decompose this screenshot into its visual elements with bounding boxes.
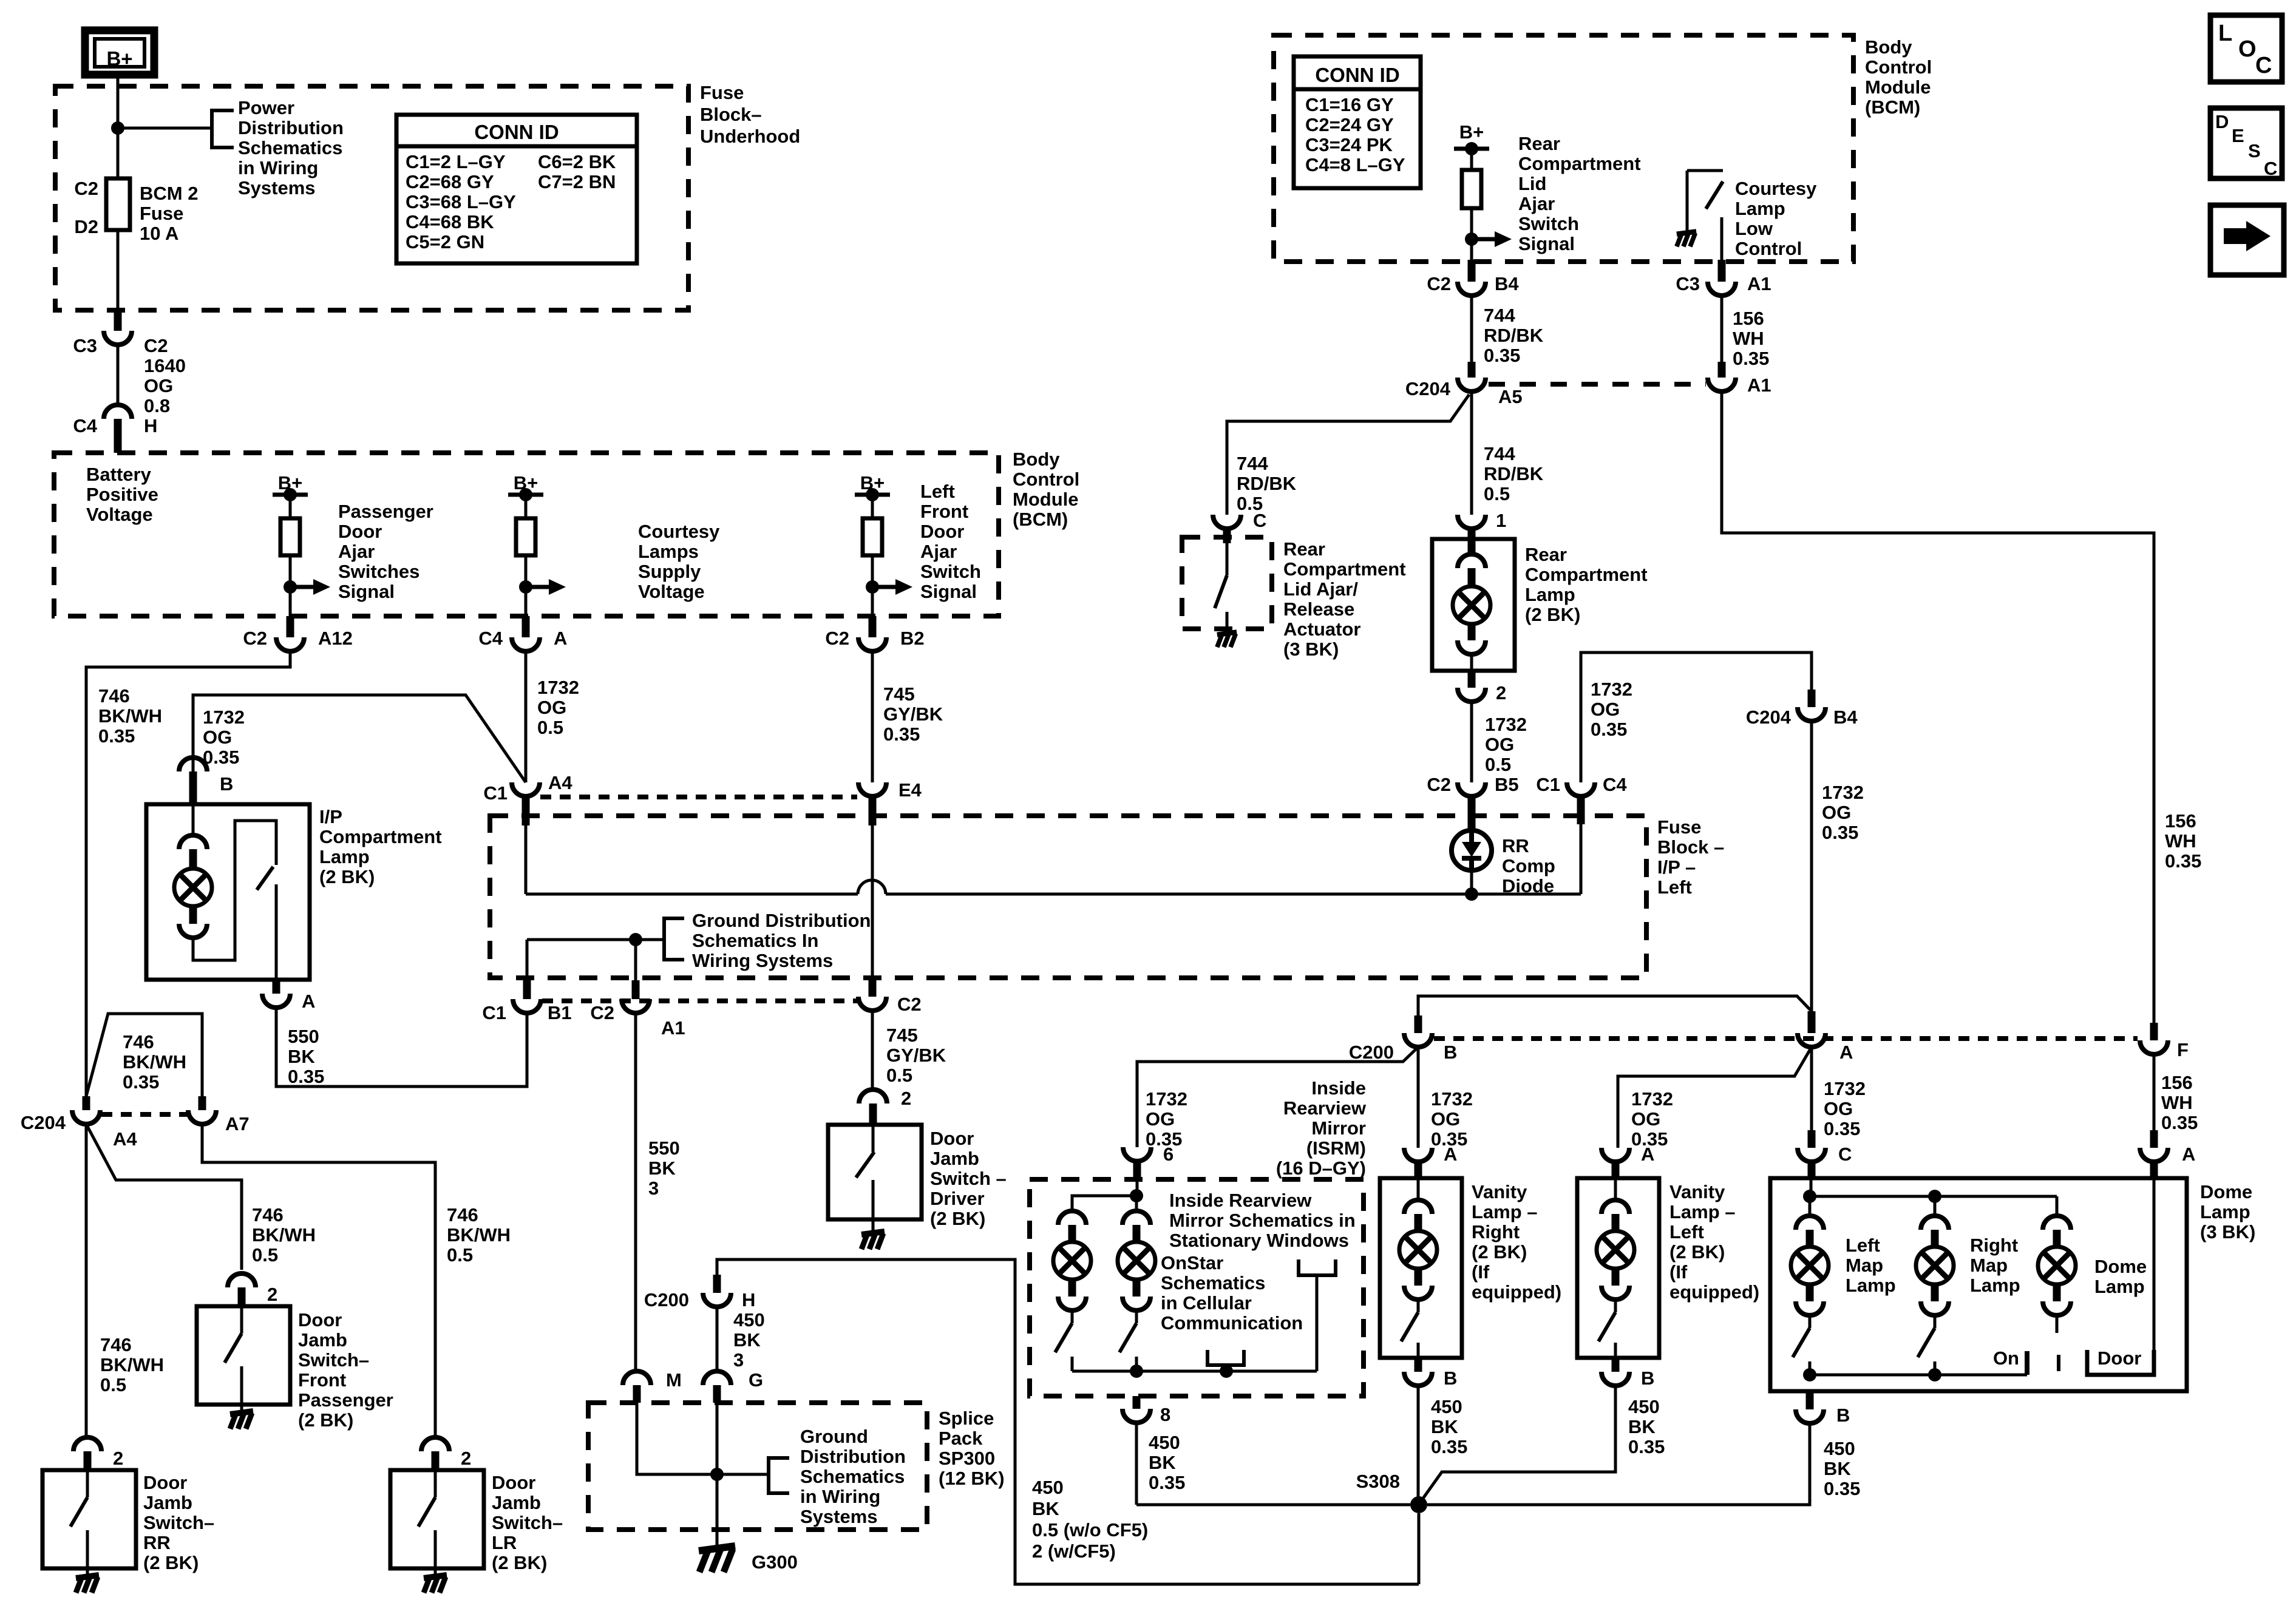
svg-text:1732: 1732: [1822, 782, 1864, 803]
svg-text:RR: RR: [143, 1532, 171, 1553]
svg-text:1732: 1732: [1485, 714, 1527, 735]
svg-text:BK/WH: BK/WH: [447, 1224, 511, 1246]
svg-text:Map: Map: [1846, 1255, 1883, 1276]
svg-text:in Wiring: in Wiring: [238, 157, 318, 178]
svg-text:6: 6: [1163, 1144, 1173, 1165]
svg-text:0.35: 0.35: [1822, 822, 1858, 843]
svg-text:F: F: [2177, 1039, 2189, 1060]
svg-text:0.5: 0.5: [886, 1065, 912, 1086]
svg-text:A12: A12: [318, 628, 353, 649]
svg-text:Control: Control: [1865, 56, 1932, 78]
door jamb switch driver box: [828, 1125, 922, 1219]
stub into C204 B4: [1808, 690, 1816, 707]
stub A into vanity left box: [1612, 1162, 1620, 1178]
wire F to dome A: [2153, 1054, 2156, 1148]
rear compartment lid ajar switch signal label: [1518, 133, 1641, 254]
connector C200/F cup: [2140, 1039, 2189, 1060]
svg-text:B5: B5: [1495, 774, 1519, 795]
svg-text:Body: Body: [1013, 449, 1060, 470]
svg-text:Schematics: Schematics: [238, 137, 342, 158]
wire label 746 BK/WH 0.35: [98, 685, 162, 747]
wire A7 to LR switch: [202, 1124, 435, 1437]
wire dome B to S308: [1427, 1423, 1810, 1505]
svg-text:0.5 (w/o CF5): 0.5 (w/o CF5): [1032, 1519, 1148, 1541]
wire B4 to A5: [1470, 296, 1473, 378]
svg-text:Rear: Rear: [1283, 538, 1325, 560]
svg-text:Systems: Systems: [238, 177, 316, 198]
svg-text:OG: OG: [203, 727, 232, 748]
wire junction to A1: [634, 940, 637, 999]
door jamb switch RR label: [143, 1472, 214, 1573]
fuse block underhood box: [55, 86, 688, 310]
svg-text:(2 BK): (2 BK): [143, 1552, 199, 1573]
stub into C200 F: [2150, 1023, 2158, 1040]
svg-text:Rear: Rear: [1525, 544, 1567, 565]
svg-text:1732: 1732: [1146, 1088, 1187, 1110]
svg-text:C4: C4: [1603, 774, 1627, 795]
stub into C204 A4: [83, 1096, 90, 1110]
stub C4 into BCM: [114, 419, 122, 453]
vanity lamp left box: [1577, 1178, 1659, 1358]
connector C204/A7 cup: [188, 1110, 250, 1134]
wire label 450 BK 0.35 dome: [1824, 1438, 1860, 1499]
svg-text:Schematics: Schematics: [1161, 1272, 1265, 1293]
svg-text:Vanity: Vanity: [1669, 1181, 1725, 1202]
svg-text:Switch: Switch: [1518, 213, 1579, 234]
wire C4 up to B4: [1581, 653, 1812, 782]
svg-text:746: 746: [98, 685, 130, 707]
svg-text:Ajar: Ajar: [920, 541, 957, 562]
svg-text:in Cellular: in Cellular: [1161, 1292, 1252, 1314]
svg-text:Map: Map: [1970, 1255, 2008, 1276]
wire label 744 RD/BK 0.5 left: [1237, 453, 1297, 514]
splice pack label: [939, 1408, 1005, 1489]
fuse block underhood label: [700, 82, 800, 147]
connector C1/B1 cup: [482, 999, 571, 1023]
wire G to G300: [716, 1403, 719, 1547]
svg-text:OG: OG: [1631, 1108, 1660, 1130]
svg-text:744: 744: [1484, 443, 1515, 464]
wire C4 down to rail: [1580, 824, 1583, 894]
wire label 745 GY/BK 0.35: [883, 683, 943, 745]
wire A12 to C204 A4: [86, 651, 290, 1096]
svg-text:Jamb: Jamb: [143, 1492, 192, 1513]
svg-text:Lamp: Lamp: [1735, 198, 1785, 219]
svg-text:3: 3: [733, 1349, 744, 1371]
wire label 1732 OG 0.5: [537, 677, 579, 738]
connector A cup IP lamp: [262, 991, 315, 1012]
svg-text:(16 D–GY): (16 D–GY): [1276, 1158, 1366, 1179]
svg-text:WH: WH: [2165, 830, 2196, 852]
actuator switch: [1215, 543, 1227, 631]
rear compartment lid ajar release actuator label: [1283, 538, 1406, 660]
svg-text:B: B: [1444, 1042, 1457, 1063]
svg-text:C2: C2: [825, 628, 849, 649]
svg-text:0.35: 0.35: [98, 725, 135, 747]
stub M into splice box: [633, 1385, 641, 1403]
svg-text:Lamp: Lamp: [1970, 1275, 2020, 1296]
svg-text:A1: A1: [661, 1017, 685, 1039]
wire B+ to fuse: [117, 75, 120, 178]
svg-text:Lamp: Lamp: [2200, 1201, 2250, 1222]
connector C2/B4 cup: [1427, 273, 1519, 296]
actuator ground: [1217, 632, 1237, 647]
svg-text:B: B: [1444, 1368, 1457, 1389]
svg-text:8: 8: [1160, 1404, 1170, 1425]
svg-text:Door: Door: [143, 1472, 187, 1493]
svg-text:0.35: 0.35: [123, 1071, 159, 1093]
svg-text:Lamp –: Lamp –: [1472, 1201, 1538, 1222]
conn id table bcm: [1294, 56, 1421, 188]
wire label 745 GY/BK 0.5: [886, 1025, 946, 1086]
wire label 744 RD/BK 0.5 right: [1484, 443, 1544, 504]
driver switch ground: [861, 1219, 885, 1249]
svg-text:Ground: Ground: [800, 1426, 868, 1447]
svg-text:450: 450: [1032, 1477, 1064, 1498]
DESC box: [2210, 108, 2282, 179]
svg-text:I/P: I/P: [319, 806, 342, 827]
wire label 450 BK 0.35 vanity right: [1431, 1396, 1467, 1457]
wire label 1640 OG 0.8: [144, 355, 186, 416]
dome left map lamp: [1791, 1196, 1829, 1375]
rear compartment lamp label: [1525, 544, 1648, 625]
fuse BCM 2 10A: [106, 178, 130, 230]
svg-text:Fuse: Fuse: [700, 82, 744, 103]
door contact bracket: [2087, 1347, 2154, 1375]
svg-text:Lamp: Lamp: [2094, 1276, 2145, 1297]
svg-text:B: B: [1836, 1405, 1850, 1426]
svg-text:450: 450: [1149, 1432, 1180, 1453]
svg-text:(12 BK): (12 BK): [939, 1468, 1005, 1489]
wire C3 to C4: [117, 345, 120, 405]
ISRM box: [1030, 1179, 1364, 1396]
svg-text:3: 3: [648, 1178, 659, 1199]
connector line A4-E4: [540, 795, 857, 799]
wire E4 down: [871, 825, 874, 997]
connector M cup: [623, 1369, 682, 1391]
connector C2/B2 cup: [825, 628, 924, 651]
svg-text:Supply: Supply: [638, 561, 701, 582]
connector C2/A1 cup: [590, 999, 685, 1039]
svg-text:Voltage: Voltage: [638, 581, 705, 602]
svg-text:Switch –: Switch –: [930, 1168, 1007, 1189]
svg-text:1: 1: [1496, 510, 1506, 531]
svg-text:Lamp: Lamp: [1846, 1275, 1896, 1296]
wire to power distribution: [118, 127, 212, 130]
svg-text:C1=2 L–GY: C1=2 L–GY: [406, 151, 506, 172]
vanity lamp left label: [1669, 1181, 1759, 1303]
svg-text:OG: OG: [1824, 1098, 1853, 1119]
wire label 1732 OG 0.35 B4: [1822, 782, 1864, 843]
connector C cup dome: [1798, 1144, 1852, 1165]
svg-text:Comp: Comp: [1502, 855, 1555, 876]
stub 2 out of rear lamp box: [1468, 671, 1476, 688]
dome lamp box: [1770, 1178, 2187, 1391]
svg-text:A: A: [1641, 1144, 1654, 1165]
svg-text:RD/BK: RD/BK: [1484, 463, 1544, 484]
svg-text:OG: OG: [1146, 1108, 1175, 1130]
svg-text:Left: Left: [1846, 1235, 1880, 1256]
next arrow box: [2210, 205, 2284, 275]
svg-text:1732: 1732: [537, 677, 579, 698]
svg-text:Control: Control: [1013, 469, 1079, 490]
svg-text:Schematics: Schematics: [800, 1466, 905, 1487]
wire 8 rail to S308: [1136, 1503, 1410, 1507]
svg-text:Communication: Communication: [1161, 1312, 1303, 1334]
svg-text:1732: 1732: [1431, 1088, 1473, 1110]
svg-text:C2: C2: [1427, 774, 1451, 795]
connector line A5-A1: [1489, 382, 1706, 387]
fuse block I/P left label: [1657, 816, 1724, 898]
svg-text:OG: OG: [1591, 699, 1620, 720]
svg-text:Door: Door: [2097, 1347, 2141, 1369]
svg-text:(3 BK): (3 BK): [2200, 1221, 2255, 1242]
IP lamp bulb assembly: [174, 804, 276, 960]
svg-text:in Wiring: in Wiring: [800, 1486, 880, 1507]
svg-text:CONN ID: CONN ID: [474, 121, 559, 143]
svg-text:C2=24 GY: C2=24 GY: [1305, 114, 1394, 135]
svg-text:Switch–: Switch–: [143, 1512, 214, 1533]
svg-text:G300: G300: [752, 1551, 798, 1573]
svg-text:450: 450: [733, 1309, 765, 1331]
wire label 550 BK 0.35: [288, 1026, 324, 1087]
svg-text:BK: BK: [288, 1046, 315, 1067]
B+ branch courtesy lamps supply voltage: [508, 472, 566, 637]
svg-text:Systems: Systems: [800, 1506, 878, 1527]
svg-text:Right: Right: [1970, 1235, 2018, 1256]
svg-text:L: L: [2218, 21, 2232, 46]
svg-text:C2: C2: [243, 628, 267, 649]
svg-text:C2=68 GY: C2=68 GY: [406, 171, 494, 192]
svg-text:B+: B+: [106, 47, 132, 70]
stub A4 into fuse block: [522, 796, 530, 825]
svg-text:744: 744: [1237, 453, 1268, 474]
svg-text:550: 550: [648, 1137, 680, 1159]
wire junction to bracket: [527, 933, 664, 946]
rear compartment lamp box: [1432, 539, 1515, 671]
svg-text:Fuse: Fuse: [1657, 816, 1701, 838]
svg-text:RD/BK: RD/BK: [1484, 325, 1544, 346]
svg-text:OG: OG: [1822, 802, 1851, 823]
wire dome A inside box: [2153, 1178, 2156, 1350]
svg-text:C: C: [2255, 53, 2272, 78]
svg-text:C3=24 PK: C3=24 PK: [1305, 134, 1393, 155]
svg-text:1640: 1640: [144, 355, 186, 376]
svg-text:Dome: Dome: [2200, 1181, 2252, 1202]
svg-text:2 (w/CF5): 2 (w/CF5): [1032, 1541, 1116, 1562]
node diode junction: [1465, 887, 1478, 901]
svg-text:Compartment: Compartment: [1518, 153, 1641, 174]
svg-text:C: C: [1838, 1144, 1852, 1165]
wire A1 to M: [634, 1013, 637, 1372]
svg-text:Passenger: Passenger: [298, 1389, 393, 1411]
passenger door label: [338, 501, 433, 602]
B+ branch rear compartment: [1454, 121, 1512, 282]
svg-text:D: D: [2215, 111, 2229, 132]
body control module label top: [1865, 36, 1932, 118]
connector line C200: [1434, 1036, 2138, 1041]
IP lamp switch contact: [275, 884, 278, 980]
stub A out of IP lamp box: [273, 980, 280, 994]
dome bottom rail: [1803, 1368, 2027, 1381]
wire A to vanity left: [1618, 1047, 1812, 1148]
svg-text:0.35: 0.35: [883, 724, 920, 745]
svg-text:2: 2: [901, 1088, 911, 1109]
svg-text:Power: Power: [238, 97, 294, 118]
svg-text:Switches: Switches: [338, 561, 419, 582]
wire 2 to B5: [1470, 702, 1473, 782]
vanity lamp left bulb: [1597, 1178, 1634, 1341]
connector C1/A4 cup: [483, 772, 572, 804]
courtesy lamps supply label: [638, 521, 720, 602]
svg-text:Door: Door: [930, 1128, 974, 1149]
svg-text:Door: Door: [920, 521, 964, 542]
svg-text:Dome: Dome: [2094, 1256, 2147, 1277]
wire M to ground node: [637, 1403, 717, 1474]
svg-text:Control: Control: [1735, 238, 1802, 259]
wire B1 up to junction: [523, 940, 531, 999]
RR comp diode label: [1502, 835, 1555, 897]
wire label 156 WH 0.35 low: [2161, 1072, 2198, 1133]
connector A cup vanity left: [1601, 1144, 1654, 1165]
connector C2/A12 cup: [243, 628, 353, 651]
vanity lamp right contact: [1417, 1343, 1420, 1358]
svg-text:156: 156: [2165, 810, 2196, 832]
svg-text:C3: C3: [73, 335, 97, 356]
dome lamp moving contact: [2057, 1355, 2060, 1371]
svg-text:Compartment: Compartment: [319, 826, 442, 847]
svg-text:Vanity: Vanity: [1472, 1181, 1527, 1202]
wire label 450 BK 0.35 vanity left: [1628, 1396, 1665, 1457]
svg-text:Switch: Switch: [920, 561, 981, 582]
connector C200/B cup: [1349, 1033, 1458, 1063]
svg-text:A5: A5: [1498, 386, 1523, 407]
onstar label: [1161, 1252, 1303, 1334]
wire B to ISRM: [1137, 1047, 1418, 1147]
door jamb switch LR label: [492, 1472, 563, 1573]
stub E4 into fuse block: [869, 796, 877, 825]
stub B5 into fuse block: [1468, 796, 1476, 830]
svg-text:0.35: 0.35: [1824, 1478, 1860, 1499]
battery positive voltage label: [86, 464, 158, 525]
svg-text:(2 BK): (2 BK): [319, 866, 375, 887]
svg-text:C5=2 GN: C5=2 GN: [406, 231, 484, 253]
svg-text:Actuator: Actuator: [1283, 619, 1360, 640]
B+ branch left front door ajar switch signal: [855, 472, 912, 637]
wire IP lamp B to A4: [193, 695, 526, 782]
svg-text:450: 450: [1431, 1396, 1462, 1417]
wire C2 to driver switch: [871, 1011, 874, 1090]
svg-text:B: B: [1641, 1368, 1654, 1389]
svg-text:C3: C3: [1676, 273, 1700, 294]
svg-text:C: C: [2264, 158, 2277, 179]
door jamb switch front passenger: [197, 1273, 290, 1429]
svg-text:C200: C200: [1349, 1042, 1394, 1063]
svg-text:C1=16 GY: C1=16 GY: [1305, 94, 1394, 115]
svg-text:A4: A4: [113, 1128, 137, 1150]
svg-text:(2 BK): (2 BK): [298, 1409, 353, 1431]
svg-text:G: G: [749, 1369, 763, 1391]
svg-text:2: 2: [113, 1448, 123, 1469]
door jamb switch RR: [42, 1437, 136, 1593]
svg-text:0.35: 0.35: [288, 1066, 324, 1087]
svg-text:Inside Rearview: Inside Rearview: [1169, 1190, 1312, 1211]
vanity lamp right label: [1472, 1181, 1561, 1303]
svg-text:C6=2 BK: C6=2 BK: [538, 151, 616, 172]
svg-text:C2: C2: [74, 178, 98, 199]
svg-text:Low: Low: [1735, 218, 1773, 239]
onstar bracket: [1207, 1350, 1244, 1371]
svg-text:H: H: [144, 415, 157, 436]
driver switch: [856, 1125, 874, 1219]
svg-text:Lamps: Lamps: [638, 541, 699, 562]
svg-text:0.35: 0.35: [1824, 1118, 1860, 1139]
door jamb switch driver label: [930, 1128, 1007, 1229]
body control module box: [54, 453, 999, 616]
svg-text:A: A: [302, 991, 315, 1012]
wire label 1732 OG 0.35 ISRM: [1146, 1088, 1187, 1150]
svg-text:745: 745: [886, 1025, 918, 1046]
wire A5 to rear lamp: [1470, 392, 1473, 515]
wire A5 branch to actuator: [1227, 395, 1469, 515]
connector C204/A5 cup: [1405, 378, 1523, 407]
body control module box top: [1274, 35, 1853, 262]
svg-text:H: H: [742, 1289, 755, 1310]
svg-text:746: 746: [100, 1334, 132, 1355]
svg-text:Module: Module: [1013, 489, 1079, 510]
wire label 1732 OG 0.35 dome: [1824, 1078, 1866, 1139]
svg-text:745: 745: [883, 683, 915, 705]
svg-text:1732: 1732: [1591, 679, 1632, 700]
stub B out of vanity left: [1612, 1358, 1620, 1372]
svg-text:C1: C1: [1536, 774, 1560, 795]
connector A cup dome: [2140, 1144, 2195, 1165]
svg-text:Wiring Systems: Wiring Systems: [692, 950, 833, 971]
svg-text:Courtesy: Courtesy: [638, 521, 720, 542]
ground distribution label: [692, 910, 871, 971]
connector A cup vanity right: [1404, 1144, 1457, 1165]
svg-text:2: 2: [1496, 682, 1506, 703]
left map lamp label: [1846, 1235, 1896, 1296]
I/P compartment lamp box: [146, 804, 310, 980]
wire A1 to C204 A1: [1720, 296, 1724, 378]
wire S308 down: [1418, 1513, 1421, 1584]
svg-text:2: 2: [461, 1448, 471, 1469]
on contact: [1993, 1347, 2027, 1375]
svg-text:Stationary Windows: Stationary Windows: [1169, 1230, 1349, 1251]
wire C200 B jumper to A: [1418, 996, 1812, 1015]
svg-text:S308: S308: [1356, 1471, 1400, 1492]
svg-text:Compartment: Compartment: [1525, 564, 1648, 585]
wire label 156 WH 0.35 top: [1733, 308, 1769, 369]
connector B cup dome: [1796, 1405, 1850, 1426]
svg-text:Pack: Pack: [939, 1428, 983, 1449]
wire B to vanity right: [1417, 1047, 1420, 1148]
svg-text:E4: E4: [898, 779, 922, 801]
svg-text:Passenger: Passenger: [338, 501, 433, 522]
svg-text:Block–: Block–: [700, 104, 762, 125]
connector C3/C2 cup: [73, 331, 168, 356]
svg-text:BK: BK: [1032, 1498, 1059, 1519]
svg-text:LR: LR: [492, 1532, 517, 1553]
wire diode to junction: [1470, 870, 1473, 894]
connector 2 cup rear lamp: [1458, 682, 1506, 703]
connector B cup vanity left: [1601, 1368, 1654, 1389]
svg-text:On: On: [1993, 1347, 2019, 1369]
svg-text:(2 BK): (2 BK): [1669, 1241, 1725, 1263]
connector C204/B4 cup: [1746, 707, 1858, 728]
svg-text:A1: A1: [1747, 273, 1771, 294]
